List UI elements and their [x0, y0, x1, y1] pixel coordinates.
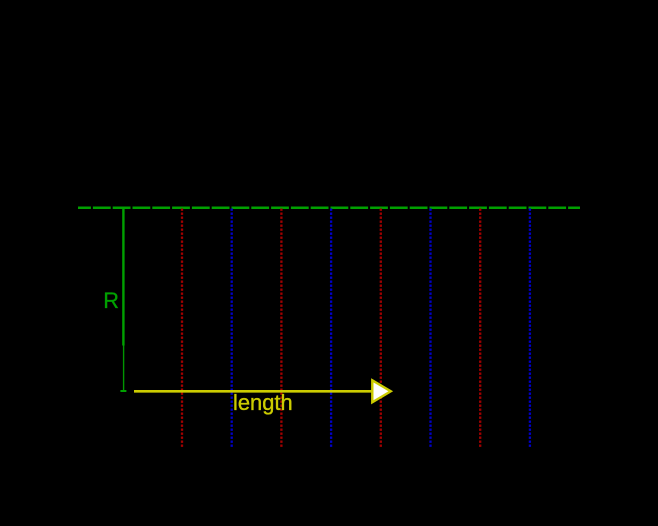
node: red dotted line 3: [380, 209, 382, 449]
svg-text:length: length: [233, 390, 293, 415]
wire: green dashed boundary line: [78, 207, 580, 210]
node: blue dotted line 1: [231, 209, 233, 449]
node: blue dotted line 2: [330, 209, 332, 449]
node: red dotted line 4: [479, 209, 481, 449]
node: red dotted line 1: [181, 209, 183, 449]
wire: green radius line R (lower thin part): [123, 346, 125, 391]
node: blue dotted line 3: [429, 209, 431, 449]
wire: green radius line R (upper part): [122, 208, 124, 346]
node: blue dotted line 4: [529, 209, 531, 449]
arrowhead of length arrow: [372, 380, 391, 402]
node: red dotted line 2: [280, 209, 282, 449]
wire: bottom cap of R line: [120, 390, 126, 392]
svg-text:R: R: [103, 288, 119, 313]
wire: yellow arrow shaft: [134, 390, 373, 393]
